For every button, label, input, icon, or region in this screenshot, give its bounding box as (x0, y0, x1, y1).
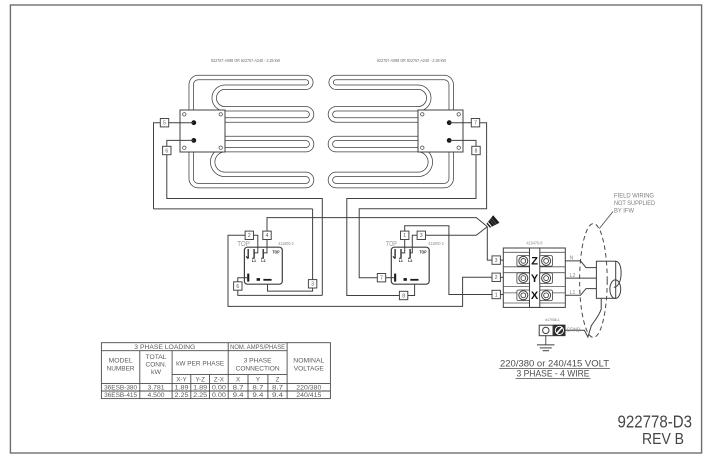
cord plug lower lobe (610, 280, 621, 299)
wire 4 run: up, right, diagonal to splice junction (267, 218, 487, 232)
svg-text:3.781: 3.781 (148, 384, 165, 391)
3 phase loading table (101, 343, 330, 399)
wire: tag 3 to block (500, 259, 503, 261)
leader line from note to ellipse (599, 212, 613, 229)
wire 2 run: left, down, long right, up to terminal block tag 2 (228, 235, 492, 306)
contactor K2 body (391, 247, 429, 284)
svg-text:7: 7 (474, 121, 477, 127)
wire tag 4 at contactor K1 (263, 231, 271, 239)
svg-text:8.7: 8.7 (252, 384, 264, 391)
wire: tag 1 down to pin L1 (401, 240, 405, 253)
svg-text:220/380 or 240/415 VOLT: 220/380 or 240/415 VOLT (500, 358, 610, 368)
contactor K2 bottom-middle pin marks (404, 278, 407, 281)
contactor K1 bottom-middle pin marks (257, 278, 260, 281)
table data row 36ESB-415 (104, 392, 322, 399)
wire 6 run: down, right, down between contactors (167, 155, 322, 296)
svg-text:4: 4 (266, 233, 269, 239)
svg-text:220/380: 220/380 (296, 384, 321, 391)
wire: tag 1 to block (500, 294, 503, 296)
svg-text:NOMINAL: NOMINAL (293, 358, 324, 365)
field wiring dashed ellipse (580, 224, 608, 338)
svg-text:1: 1 (403, 233, 406, 239)
element E1 mounting plate (180, 110, 225, 152)
svg-text:1: 1 (495, 292, 498, 298)
svg-text:TOP: TOP (420, 250, 427, 255)
svg-text:6: 6 (165, 148, 168, 154)
wire 3 run: right, diagonal to splice junction (426, 227, 488, 236)
wire tag 3 at contactor K1 right (308, 280, 316, 288)
wire tag 7 at contactor K2 (377, 274, 385, 282)
svg-text:8: 8 (475, 148, 478, 154)
svg-text:CONN.: CONN. (146, 362, 167, 369)
svg-text:2: 2 (495, 275, 498, 281)
svg-text:GRND: GRND (567, 327, 581, 333)
terminal block TB 410470-8 (503, 248, 565, 307)
wire: tag 3 to K1 bottom-middle pin (268, 284, 313, 291)
svg-text:2.25: 2.25 (175, 392, 189, 399)
svg-text:410470-8: 410470-8 (527, 241, 544, 246)
wire tag 6 (element E1 lower lead) (163, 146, 171, 154)
element E2 terminal dot lower (447, 138, 452, 143)
svg-text:Y-Z: Y-Z (195, 376, 205, 383)
svg-text:X-Y: X-Y (176, 376, 186, 383)
svg-text:REV B: REV B (642, 431, 684, 448)
svg-text:#17936-1: #17936-1 (545, 318, 560, 322)
svg-text:9.4: 9.4 (252, 392, 264, 399)
wire: tag 7 to K2 bottom-left pin (386, 277, 394, 279)
svg-text:Y: Y (256, 376, 260, 383)
svg-text:kW: kW (151, 369, 162, 376)
svg-text:TOP: TOP (237, 241, 250, 248)
svg-text:1.89: 1.89 (175, 384, 189, 391)
wire: tag 3 jog to pin L2 (410, 235, 417, 253)
svg-text:922767-A098 OR 922767-A240 - 2: 922767-A098 OR 922767-A240 - 2.28 kW (377, 58, 447, 63)
wire: tag 5 left and down (154, 123, 161, 209)
svg-text:3: 3 (420, 233, 423, 239)
terminal block pole 1 screws (517, 256, 553, 267)
svg-text:3 PHASE: 3 PHASE (244, 358, 272, 365)
svg-text:Z-X: Z-X (214, 376, 224, 383)
wire tag 3 at contactor K2 (417, 231, 425, 239)
svg-text:922778-D3: 922778-D3 (618, 412, 693, 432)
svg-text:FIELD WIRING: FIELD WIRING (614, 193, 654, 200)
cord jacket (596, 261, 615, 298)
svg-text:0.00: 0.00 (212, 392, 226, 399)
svg-text:TOP: TOP (386, 241, 397, 248)
svg-text:9.4: 9.4 (233, 392, 245, 399)
wire tag 6 at contactor K1 (234, 282, 242, 290)
wire 1 run: up, right, down, right to terminal block tag 1 (405, 226, 492, 295)
heating element E2 (right serpentine coil) (330, 78, 458, 186)
svg-text:L2: L2 (408, 259, 412, 263)
svg-text:X: X (236, 376, 240, 383)
svg-text:7: 7 (380, 276, 383, 282)
wire tag 1 at terminal block (L1) (492, 290, 500, 298)
svg-text:Y: Y (531, 273, 539, 285)
wire tag 2 at contactor K1 (245, 231, 253, 239)
wire: tag 4 down to pin L2 (263, 240, 267, 253)
field wiring note text (614, 193, 655, 215)
wire 5 run: down into tag 3 (312, 209, 314, 280)
svg-text:5: 5 (163, 121, 166, 127)
heating element E1 (left serpentine coil) (191, 78, 311, 186)
field wire L1 to cord (565, 289, 596, 296)
svg-text:NOM. AMPS/PHASE: NOM. AMPS/PHASE (230, 345, 285, 351)
svg-text:TOTAL: TOTAL (146, 354, 167, 361)
contactor K1 line pins L1 L2 (246, 249, 266, 263)
table data row 36ESB-380 (104, 384, 322, 391)
wire tag 7 (element E2 upper lead) (471, 119, 479, 127)
svg-text:9.4: 9.4 (272, 392, 284, 399)
terminal block center strip with Z Y X (530, 248, 540, 307)
wire tag 1 at contactor K2 (401, 231, 409, 239)
svg-text:36ESB-380: 36ESB-380 (104, 384, 137, 391)
svg-text:Z: Z (531, 256, 538, 268)
svg-text:L1: L1 (252, 259, 256, 263)
element E1 terminal dot lower (191, 138, 196, 143)
svg-text:240/415: 240/415 (296, 392, 321, 399)
wire: K1 bottom-left pin to tag 6 (238, 278, 247, 282)
wire: E1 lower terminal to tag 6 (167, 140, 194, 146)
element E1 terminal dot upper (191, 120, 196, 125)
wire 8 run: down, left, down, right to contactor K2 tag 8 (347, 155, 476, 296)
cord plug upper lobe (614, 261, 621, 287)
svg-text:kW PER PHASE: kW PER PHASE (176, 361, 224, 368)
svg-text:L1: L1 (399, 259, 403, 263)
svg-text:8.7: 8.7 (233, 384, 245, 391)
svg-text:NOT SUPPLIED: NOT SUPPLIED (614, 200, 655, 207)
wire: tag 2 jog to pin L1 (254, 235, 258, 253)
svg-text:8: 8 (402, 293, 405, 299)
svg-text:VOLTAGE: VOLTAGE (294, 366, 324, 373)
element E2 mounting plate (418, 110, 463, 152)
svg-text:MODEL: MODEL (109, 358, 133, 365)
svg-text:Z: Z (276, 376, 280, 383)
svg-text:3 PHASE LOADING: 3 PHASE LOADING (134, 344, 195, 351)
wire tag 5 (element E1 upper lead) (160, 119, 168, 127)
svg-text:2: 2 (248, 233, 251, 239)
contactor K2 bottom-left pin (394, 274, 396, 282)
svg-text:3: 3 (311, 282, 314, 288)
terminal block pole 3 screws (517, 290, 553, 301)
svg-text:6: 6 (236, 284, 239, 290)
svg-text:3: 3 (495, 258, 498, 264)
svg-text:BY IFW: BY IFW (614, 208, 634, 215)
wire: E1 upper terminal to tag 5 (169, 122, 194, 124)
terminal block pole 2 screws (517, 273, 553, 284)
wire 7 run: right, down, left, down, right to contactor K2 (359, 123, 486, 278)
wire tag 8 (element E2 lower lead) (472, 146, 480, 154)
svg-text:4.500: 4.500 (148, 392, 165, 399)
ground cord from plug to lug (565, 298, 601, 337)
svg-text:411800-2: 411800-2 (428, 241, 444, 246)
svg-text:L2: L2 (261, 259, 265, 263)
wire: E2 upper terminal to tag 7 (449, 122, 471, 124)
field wire N to cord (565, 261, 596, 268)
svg-text:1.89: 1.89 (193, 384, 207, 391)
wire: splice junction down to terminal block tag 3 (487, 227, 492, 261)
wire: tag 2 to block (500, 276, 503, 278)
wire 6 run: left to contactor K1 tag 6 (238, 290, 322, 296)
svg-text:36ESB-415: 36ESB-415 (104, 392, 137, 399)
wire: tag 8 up to K2 bottom-middle pin (408, 284, 415, 295)
svg-text:922767-A098 OR 922767-A240 - 2: 922767-A098 OR 922767-A240 - 2.28 kW (211, 58, 281, 63)
svg-text:CONNECTION: CONNECTION (236, 366, 280, 373)
ground symbol (537, 336, 555, 351)
wire nut (black cone) at splice (485, 216, 499, 229)
field wire L2 to cord (565, 277, 596, 279)
element E2 terminal dot upper (447, 120, 452, 125)
contactor K1 bottom-left pin (247, 274, 249, 282)
svg-text:2.25: 2.25 (193, 392, 207, 399)
wire tag 8 at contactor K2 (399, 291, 407, 299)
wire 5 run: right to above tag 3 (154, 208, 313, 210)
contactor K2 line pins L1 L2 (393, 249, 413, 263)
svg-text:0.00: 0.00 (212, 384, 226, 391)
svg-text:411800-2: 411800-2 (278, 241, 294, 246)
svg-text:3 PHASE - 4 WIRE: 3 PHASE - 4 WIRE (517, 368, 590, 378)
wire tag 3 at terminal block (N) (492, 256, 500, 264)
ground lug 17936-1 (539, 325, 565, 336)
wire: E2 lower terminal to tag 8 (449, 140, 476, 146)
contactor K1 body (244, 247, 282, 284)
svg-text:NUMBER: NUMBER (107, 366, 135, 373)
svg-text:TOP: TOP (273, 250, 280, 255)
svg-text:8.7: 8.7 (272, 384, 284, 391)
wire tag 2 at terminal block (L2) (492, 273, 500, 281)
svg-text:X: X (531, 290, 539, 302)
